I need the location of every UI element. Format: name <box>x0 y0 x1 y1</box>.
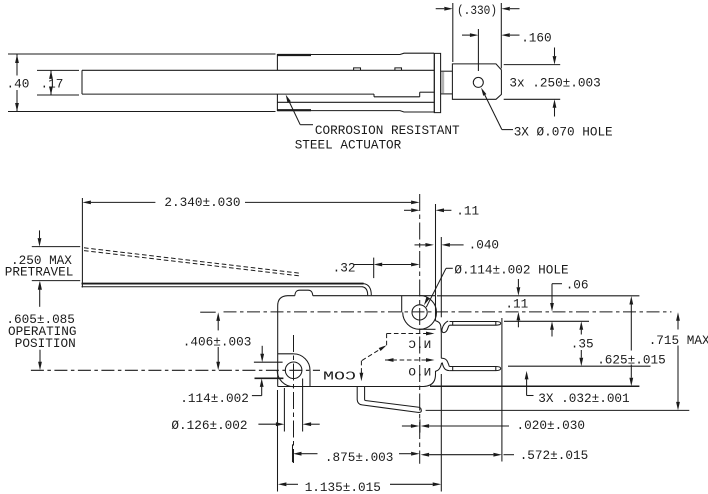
dimension 3X .032 bracket <box>525 371 534 396</box>
svg-text:.572±.015: .572±.015 <box>520 448 589 463</box>
svg-text:N.C: N.C <box>408 340 432 352</box>
dimension text .32 <box>333 261 356 276</box>
dimension text 2.340±.030 <box>164 195 240 210</box>
dimension .250 pretravel extension lines <box>32 247 80 281</box>
dimension (.330) extension line right <box>500 3 502 69</box>
dashed lever pretravel position <box>84 248 300 276</box>
label text PRETRAVEL <box>5 265 74 280</box>
com terminal foot <box>357 387 421 413</box>
actuator blade <box>82 70 434 97</box>
dimension .32 extension line <box>373 258 375 279</box>
blade tab 2 <box>395 68 402 70</box>
dimension .625 arrows <box>629 296 633 386</box>
label text POSITION <box>15 336 76 351</box>
body left edge extension <box>277 390 279 492</box>
terminal block edge <box>440 334 442 359</box>
dimension .020 tick <box>419 419 421 432</box>
lower terminal hook <box>441 358 449 370</box>
dashed link vertical <box>386 334 388 346</box>
svg-text:POSITION: POSITION <box>15 336 76 351</box>
dimension .17 extension lines <box>37 70 79 95</box>
dimension text .572±.015 <box>520 448 589 463</box>
dimension .17 arrows <box>49 70 53 95</box>
svg-text:.715 MAX: .715 MAX <box>649 333 708 348</box>
label text 3X Ø.070 HOLE <box>514 124 613 139</box>
dimension text .40 <box>7 77 30 92</box>
svg-text:COM: COM <box>323 371 356 384</box>
sleeve crimp dark top segment <box>277 54 311 56</box>
dimension text .17 <box>41 77 64 92</box>
svg-text:3x .250±.003: 3x .250±.003 <box>509 76 600 91</box>
com arrow <box>360 371 364 381</box>
dimension Ø.126 arrows <box>258 422 319 426</box>
switch body outline <box>278 296 436 387</box>
dimension 1.135 line <box>278 482 441 486</box>
dimension .11 arrows <box>517 279 521 327</box>
dimension .040 arrows <box>415 243 464 247</box>
dimension .406 arrows <box>216 312 220 370</box>
mounting hole <box>412 305 427 320</box>
label text COM mirrored <box>323 371 356 384</box>
dimension text 1.135±.015 <box>305 480 381 494</box>
upper terminal hook <box>442 321 450 333</box>
svg-text:1.135±.015: 1.135±.015 <box>305 480 381 494</box>
svg-text:Ø.114±.002 HOLE: Ø.114±.002 HOLE <box>454 262 568 277</box>
dimension .32 line <box>354 263 420 267</box>
svg-text:2.340±.030: 2.340±.030 <box>164 195 240 210</box>
upper terminal bar <box>450 322 501 326</box>
dimension .06 bracket <box>550 284 562 337</box>
foot tip extension <box>426 409 690 411</box>
svg-text:(.330): (.330) <box>457 3 497 18</box>
label text NO mirrored <box>408 367 431 379</box>
dashed com riser <box>360 361 362 371</box>
svg-text:STEEL ACTUATOR: STEEL ACTUATOR <box>295 138 402 153</box>
dimension text .35 <box>571 336 594 351</box>
centerline tick .406 <box>200 311 216 313</box>
pivot hole <box>285 362 302 379</box>
dimension .40 arrows <box>15 55 19 112</box>
dimension text .11 top <box>456 204 479 219</box>
dimension .875 line <box>293 452 420 456</box>
plunger dome <box>295 290 313 296</box>
dimension .160 extension line <box>477 29 479 71</box>
vertical centerline pivot hole <box>293 335 295 463</box>
dimension 2.340 extension line <box>81 198 83 288</box>
svg-text:.875±.003: .875±.003 <box>325 450 394 465</box>
dimension text .11 <box>505 296 528 311</box>
main centerline through pivot hole <box>224 311 672 313</box>
free lever end extension lower <box>440 374 442 492</box>
leader .114 hole <box>424 268 453 307</box>
upper terminal hook body notch <box>436 321 442 334</box>
lower terminal bar <box>449 367 500 371</box>
dimension .572 line <box>421 453 514 457</box>
svg-text:.114±.002: .114±.002 <box>180 391 249 406</box>
dimension text .406±.003 <box>183 335 252 350</box>
label text NC mirrored <box>408 340 432 352</box>
dimension Ø.126 extension lines <box>284 379 302 432</box>
extension line free lever end <box>440 237 442 317</box>
leader corrosion resistant <box>286 95 313 125</box>
lower terminal body cradle <box>436 363 442 371</box>
dimension .35 arrows <box>579 321 583 366</box>
sleeve crimp dark bottom segment <box>277 109 311 111</box>
svg-text:.040: .040 <box>469 238 499 253</box>
label text CORROSION RESISTANT <box>315 123 460 138</box>
dimension .11 top arrows <box>404 208 451 212</box>
dashed moving blade <box>361 345 386 361</box>
lower terminal extension <box>508 365 651 367</box>
dimension (.330) extension line left <box>452 3 454 62</box>
mounting boss tangent line <box>401 296 403 313</box>
dimension .250 extension lines <box>504 65 561 100</box>
svg-text:.11: .11 <box>505 296 528 311</box>
dimension .605 arrows <box>38 281 42 370</box>
mounting boss arc <box>403 296 437 330</box>
label text .605±.085 <box>6 312 75 327</box>
dashed contact line NO <box>385 358 435 362</box>
lever rest position <box>82 284 364 287</box>
svg-text:Ø.126±.002: Ø.126±.002 <box>171 418 247 433</box>
actuator flat terminal end <box>452 64 501 99</box>
actuator stroke envelope bottom line <box>8 111 276 113</box>
dimension .020 arrows <box>402 424 509 428</box>
dimension text .06 <box>566 277 589 292</box>
label text .250 MAX <box>11 253 72 268</box>
dimension .875 tick <box>292 444 294 462</box>
dimension text .020±.030 <box>517 418 586 433</box>
actuator neck <box>441 71 453 94</box>
svg-text:.11: .11 <box>456 204 479 219</box>
operating position centerline <box>31 369 320 371</box>
actuator neck shadow <box>441 72 444 93</box>
label text STEEL ACTUATOR <box>295 138 402 153</box>
pivot boss arcs <box>277 354 310 387</box>
dimension .160 arrows <box>462 33 520 37</box>
actuator holder sleeve outline <box>277 53 434 112</box>
dimension 2.340 line <box>82 201 419 205</box>
pivot boss tangent line <box>278 353 294 355</box>
dimension .250 arrows <box>553 48 557 117</box>
leader 3X .070 HOLE <box>481 88 513 130</box>
dimension text .715 MAX <box>649 333 708 348</box>
svg-text:.020±.030: .020±.030 <box>517 418 586 433</box>
terminal tips extension line <box>501 318 503 462</box>
dimension text Ø.126±.002 <box>171 418 247 433</box>
label text Ø.114 hole <box>454 262 568 277</box>
dimension text .875±.003 <box>325 450 394 465</box>
svg-text:N.O: N.O <box>408 367 431 379</box>
hole in flat end <box>473 77 483 87</box>
svg-text:.32: .32 <box>333 261 356 276</box>
svg-text:3X .032±.001: 3X .032±.001 <box>538 391 629 406</box>
svg-text:.06: .06 <box>566 277 589 292</box>
svg-text:.17: .17 <box>41 77 64 92</box>
dimension .250 pretravel arrows <box>38 230 42 306</box>
body top edge extension <box>437 295 639 297</box>
actuator stroke envelope top line <box>8 53 276 55</box>
dimension .715 arrows <box>676 312 680 410</box>
dimension text .625±.015 <box>597 352 666 367</box>
svg-text:CORROSION RESISTANT: CORROSION RESISTANT <box>315 123 460 138</box>
dimension text .160 <box>521 31 551 46</box>
dimension text .114±.002 <box>180 391 249 406</box>
svg-text:PRETRAVEL: PRETRAVEL <box>5 265 74 280</box>
sleeve end cap <box>434 53 440 112</box>
dimension .114 extension lines <box>254 362 284 378</box>
body right edge extension line <box>435 204 437 296</box>
mounting boss bottom line <box>420 328 436 330</box>
svg-text:.40: .40 <box>7 77 30 92</box>
dashed contact line NC <box>387 332 435 336</box>
dimension .114 arrows <box>252 346 264 396</box>
label text OPERATING <box>8 324 77 339</box>
dimension text .040 <box>469 238 499 253</box>
dimension text 3x .250±.003 <box>509 76 600 91</box>
dimension (.330) arrows <box>436 7 520 11</box>
svg-text:.406±.003: .406±.003 <box>183 335 252 350</box>
blade tab 1 <box>354 68 361 70</box>
vertical centerline mounting hole <box>419 194 421 464</box>
svg-text:.160: .160 <box>521 31 551 46</box>
svg-text:3X Ø.070 HOLE: 3X Ø.070 HOLE <box>514 124 613 139</box>
body bottom edge extension <box>430 385 639 387</box>
lever tip curve <box>362 284 371 296</box>
dimension text (.330) <box>457 3 497 18</box>
terminal top extension <box>504 320 589 322</box>
dimension text 3X .032±.001 <box>538 391 629 406</box>
svg-text:.625±.015: .625±.015 <box>597 352 666 367</box>
svg-text:.35: .35 <box>571 336 594 351</box>
